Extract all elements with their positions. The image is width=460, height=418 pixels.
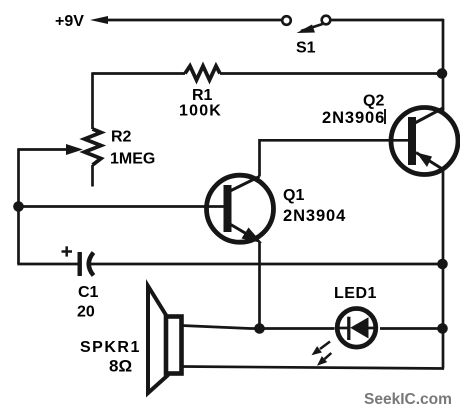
label SPKR1 8ohm	[80, 339, 141, 376]
label C1 20	[77, 284, 99, 321]
wire Q1 base line	[19, 205, 224, 208]
wire C1 row	[17, 263, 443, 266]
node junction dot R1/rail	[437, 68, 448, 79]
wire right rail lower	[442, 170, 445, 369]
svg-text:LED1: LED1	[334, 285, 377, 302]
watermark SeekIC.com	[364, 391, 452, 408]
resistor R2 (rheostat)	[85, 129, 102, 187]
LED emission arrows	[312, 342, 332, 366]
svg-text:R2: R2	[111, 129, 132, 146]
svg-text:20: 20	[77, 304, 95, 321]
wire left rail	[17, 148, 20, 264]
wire Q1 emitter down	[258, 242, 261, 329]
label R2 1MEG	[110, 129, 155, 168]
wire R1 row	[93, 72, 444, 75]
svg-text:Q1: Q1	[283, 187, 304, 204]
svg-text:8Ω: 8Ω	[109, 357, 132, 376]
label Q2 2N3906	[322, 93, 385, 128]
transistor Q1	[207, 175, 274, 243]
svg-text:1MEG: 1MEG	[110, 151, 155, 168]
svg-text:R1: R1	[192, 87, 213, 104]
node +9V label	[55, 13, 84, 30]
resistor R1	[185, 66, 220, 80]
svg-text:2N3904: 2N3904	[283, 207, 346, 225]
svg-text:S1: S1	[296, 40, 316, 57]
svg-text:2N3906: 2N3906	[322, 109, 385, 127]
node junction dot LED row / rail	[437, 323, 448, 334]
wire Q1 collector to Q2 base	[260, 140, 409, 176]
label R1 100K	[179, 87, 222, 120]
svg-text:100K: 100K	[179, 103, 222, 120]
wire speaker top lead / LED row	[182, 326, 444, 329]
svg-text:SeekIC.com: SeekIC.com	[364, 391, 452, 408]
svg-text:SPKR1: SPKR1	[80, 339, 141, 356]
node junction dot C1 row / rail	[437, 259, 448, 270]
LED LED1	[336, 309, 376, 348]
label S1	[296, 40, 316, 57]
node junction dot left rail / Q1 base	[13, 201, 24, 212]
transistor Q2	[391, 108, 458, 175]
capacitor C1	[62, 246, 94, 276]
speaker SPKR1	[148, 286, 182, 393]
svg-text:Q2: Q2	[363, 93, 384, 110]
wire R2 top lead	[91, 72, 94, 129]
wire wiper arrow	[19, 144, 84, 155]
wire speaker bottom lead	[182, 367, 445, 369]
wire S1 to right rail	[330, 19, 443, 111]
switch S1	[282, 16, 330, 33]
wire +9V top line with arrow	[90, 16, 282, 24]
svg-text:C1: C1	[78, 284, 99, 301]
svg-text:+9V: +9V	[55, 13, 84, 30]
label Q1 2N3904	[283, 187, 346, 225]
label LED1	[334, 285, 377, 302]
node junction dot Q1 emitter / speaker line	[254, 323, 265, 334]
